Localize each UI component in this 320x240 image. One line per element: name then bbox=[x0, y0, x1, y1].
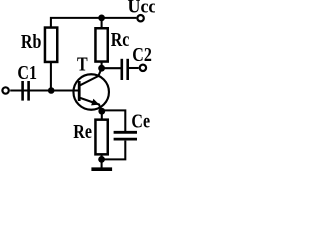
svg-text:Ucc: Ucc bbox=[128, 0, 156, 18]
svg-text:Re: Re bbox=[73, 121, 92, 143]
svg-text:C2: C2 bbox=[132, 44, 152, 66]
svg-text:Ce: Ce bbox=[131, 110, 150, 132]
svg-text:Rb: Rb bbox=[21, 30, 42, 52]
svg-text:Rc: Rc bbox=[111, 29, 130, 51]
svg-text:T: T bbox=[77, 53, 88, 75]
svg-text:C1: C1 bbox=[17, 62, 37, 84]
